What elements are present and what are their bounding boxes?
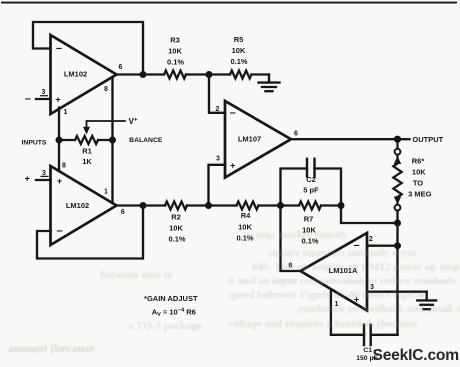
- svg-text:10K: 10K: [412, 168, 426, 177]
- svg-text:V+: V+: [129, 117, 138, 126]
- label R7: [301, 215, 318, 246]
- label C2: [303, 175, 319, 195]
- label R3: [167, 36, 184, 67]
- ground (LM101A pin 3): [417, 292, 436, 310]
- wire: C1 rail left segment: [331, 334, 364, 336]
- op-amp U4 LM101A triangle (points left): [301, 233, 368, 311]
- wire: U2 pin 8 up to balance rail: [58, 140, 60, 171]
- svg-text:–: –: [56, 43, 62, 55]
- resistor R7: [299, 202, 321, 210]
- resistor R1 (balance pot): [59, 136, 113, 144]
- svg-text:+: +: [230, 161, 235, 171]
- svg-text:0.1%: 0.1%: [168, 235, 185, 244]
- svg-text:+: +: [25, 174, 30, 184]
- svg-text:6: 6: [119, 64, 123, 71]
- resistor R4: [237, 202, 259, 210]
- node: OUTPUT: [394, 136, 401, 143]
- label R2: [168, 213, 185, 244]
- svg-text:R2: R2: [171, 213, 181, 222]
- op-amp U2 LM102 (bottom) triangle: [51, 166, 117, 245]
- node: R2-R4 junction: [205, 202, 212, 209]
- svg-text:AV = 10–4 R6: AV = 10–4 R6: [152, 308, 196, 319]
- svg-text:INPUTS: INPUTS: [22, 139, 47, 146]
- svg-text:2: 2: [216, 106, 220, 113]
- capacitor C2 loop wires: [281, 169, 342, 206]
- node: U2 output/feedback: [140, 202, 147, 209]
- wire: U1 pin 1 down to balance rail: [58, 108, 60, 141]
- svg-text:10K: 10K: [232, 46, 246, 55]
- svg-text:BALANCE: BALANCE: [129, 137, 163, 144]
- svg-text:LM102: LM102: [66, 201, 89, 210]
- pin 3 underline U2: [41, 175, 49, 177]
- resistor R5: [230, 71, 252, 79]
- svg-text:5 pF: 5 pF: [303, 186, 319, 195]
- wire: R4 to node A: [259, 204, 281, 206]
- wire: R7 to node B: [321, 204, 341, 206]
- R1 wiper arrow to V+: [83, 121, 125, 135]
- svg-text:TO: TO: [413, 179, 423, 188]
- wire: LM107 output to output node: [291, 138, 398, 140]
- wire: U2 pin 1 up to balance rail: [111, 140, 113, 203]
- capacitor C2 plates: [307, 159, 315, 177]
- svg-text:8: 8: [62, 163, 66, 170]
- potentiometer R6 (vertical, with range arrows): [393, 139, 401, 205]
- pin 3 underline U1: [40, 95, 48, 97]
- svg-text:R1: R1: [82, 147, 92, 156]
- R6 arrowhead up: [394, 156, 401, 164]
- wire: U2 input pin 3: [36, 179, 51, 181]
- svg-text:C2: C2: [306, 175, 316, 184]
- svg-text:+: +: [55, 94, 60, 104]
- svg-text:3: 3: [216, 156, 220, 163]
- wire: R5 to ground: [252, 73, 270, 75]
- svg-text:SeekIC.com: SeekIC.com: [373, 347, 459, 364]
- wire: U1 feedback loop output to inverting input: [33, 22, 143, 75]
- svg-text:2: 2: [369, 236, 373, 243]
- node: R3-R5 junction: [206, 71, 213, 78]
- top border rule of page: [2, 2, 456, 4]
- wire: node to LM107 pin 3: [209, 165, 226, 206]
- R6 bottom terminal circle: [395, 205, 401, 211]
- resistor R3: [164, 71, 186, 79]
- R6 top terminal circle: [395, 149, 401, 155]
- svg-text:3: 3: [42, 170, 46, 177]
- label R4: [236, 211, 253, 243]
- wire: U1 input pin 3: [36, 98, 51, 100]
- svg-text:R3: R3: [170, 36, 180, 45]
- wire: R6 bottom terminal down to LM101A pin 2 and bottom rail: [396, 211, 398, 335]
- wire: U1 output to R3: [117, 73, 165, 75]
- svg-text:R4: R4: [241, 211, 251, 220]
- label R1: [82, 147, 92, 167]
- svg-text:–: –: [25, 93, 31, 105]
- wire: R2 to R4: [187, 204, 237, 206]
- wire: node to LM107 pin 2: [209, 75, 225, 113]
- svg-text:6: 6: [294, 130, 298, 137]
- svg-text:0.1%: 0.1%: [167, 58, 184, 67]
- node B: R7/C2/R6: [338, 202, 345, 209]
- svg-text:3 MEG: 3 MEG: [408, 190, 432, 199]
- svg-text:R7: R7: [304, 215, 314, 224]
- wire: C1 rail right segment: [371, 334, 398, 336]
- node: U1 output/feedback: [140, 71, 147, 78]
- label R5: [230, 35, 247, 66]
- svg-text:LM107: LM107: [238, 135, 261, 144]
- capacitor C1 plates: [364, 325, 371, 345]
- svg-text:10K: 10K: [168, 47, 182, 56]
- svg-text:10K: 10K: [169, 224, 183, 233]
- wire: U2 output to R2: [117, 204, 166, 206]
- wire: node B down and right to R6 bottom: [341, 206, 398, 224]
- svg-text:0.1%: 0.1%: [230, 57, 247, 66]
- svg-text:–: –: [230, 107, 236, 119]
- svg-text:8: 8: [104, 86, 108, 93]
- ground (after R5): [259, 75, 280, 92]
- node: R1 left / balance rail: [56, 137, 63, 144]
- svg-text:+: +: [57, 176, 62, 186]
- svg-text:OUTPUT: OUTPUT: [412, 135, 443, 144]
- svg-text:R5: R5: [234, 35, 244, 44]
- node: R6 bottom junction: [394, 220, 401, 227]
- wire: R3 to R5: [186, 73, 230, 75]
- svg-text:1: 1: [64, 109, 68, 116]
- wire: LM101A output to node A: [281, 206, 301, 272]
- wire: U2 feedback loop output to inverting input: [37, 206, 143, 259]
- svg-text:–: –: [56, 225, 62, 237]
- resistor R2: [165, 202, 187, 210]
- label R6: [408, 157, 432, 199]
- wire: node A to R7: [281, 204, 300, 206]
- wire: LM101A pin 1 down to C1 rail: [330, 290, 332, 335]
- node A: R4/R7/C2/U4 output: [277, 202, 284, 209]
- label C1: [356, 347, 378, 362]
- wire: LM101A pin 2: [367, 245, 398, 247]
- wire: U1 pin 8 down to balance rail: [111, 78, 113, 141]
- svg-text:LM102: LM102: [64, 69, 87, 78]
- svg-text:*GAIN ADJUST: *GAIN ADJUST: [144, 294, 198, 303]
- wire: LM101A pin 3 to ground: [367, 291, 427, 293]
- op-amp U1 LM102 (top) triangle: [51, 35, 117, 114]
- faint print-through text lines (background of scan): [243, 230, 347, 241]
- R6 arrowhead down: [394, 197, 401, 205]
- svg-text:C1: C1: [363, 347, 372, 354]
- svg-text:6: 6: [121, 209, 125, 216]
- svg-text:R6*: R6*: [412, 157, 425, 166]
- node: R1 right / balance rail: [109, 137, 116, 144]
- wire: output stub: [398, 138, 410, 140]
- node: pin2 junction: [394, 242, 401, 249]
- svg-text:1K: 1K: [82, 157, 92, 166]
- op-amp U3 LM107 triangle: [225, 101, 291, 178]
- svg-text:1: 1: [104, 189, 108, 196]
